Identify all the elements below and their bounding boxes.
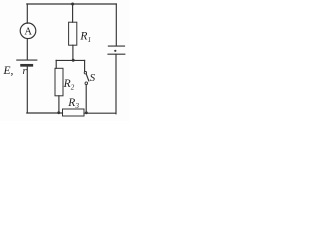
- resistor R1: [69, 22, 77, 45]
- svg-text:S: S: [90, 72, 96, 84]
- svg-text:R: R: [63, 78, 71, 90]
- resistor R3: [63, 109, 85, 116]
- wire middle bus: [56, 59, 85, 61]
- wire R2 top lead: [55, 60, 57, 68]
- svg-text:R: R: [67, 97, 75, 109]
- wire switch top lead: [84, 60, 86, 71]
- wire R1 branch upper lead: [72, 4, 74, 22]
- battery E,r short plate: [22, 64, 32, 67]
- resistor R2: [55, 68, 63, 96]
- junction dot switch bottom rail: [85, 111, 88, 114]
- wire right branch lower: [115, 54, 117, 114]
- wire left branch top lead: [26, 4, 28, 23]
- svg-text:3: 3: [75, 102, 80, 110]
- svg-text:E,: E,: [3, 65, 14, 77]
- svg-text:1: 1: [88, 36, 92, 44]
- wire bottom rail right segment: [84, 112, 116, 114]
- wire bottom rail left segment: [27, 112, 63, 114]
- junction dot R1 middle bus: [72, 59, 75, 62]
- wire switch bottom lead: [85, 85, 87, 113]
- wire top rail: [27, 3, 117, 5]
- svg-text:R: R: [79, 31, 87, 43]
- capacitor top plate: [108, 45, 124, 47]
- wire R2 bottom lead: [58, 96, 60, 113]
- junction dot R1 top rail: [71, 3, 74, 6]
- junction dot R2 bottom rail: [57, 111, 60, 114]
- svg-text:A: A: [24, 27, 32, 38]
- battery E,r long plate: [17, 59, 37, 61]
- capacitor bottom plate: [108, 53, 125, 55]
- capacitor center dot: [114, 50, 116, 52]
- svg-text:2: 2: [71, 83, 75, 91]
- switch S bottom contact: [85, 82, 88, 85]
- ammeter A: [20, 23, 36, 39]
- wire R1 lower lead: [72, 45, 74, 60]
- wire ammeter to battery: [26, 39, 28, 60]
- switch S blade: [86, 74, 89, 81]
- wire battery to bottom rail: [26, 67, 28, 113]
- wire right branch upper: [115, 4, 117, 46]
- switch S top contact: [84, 72, 86, 74]
